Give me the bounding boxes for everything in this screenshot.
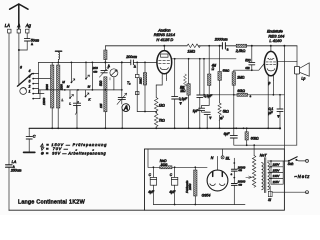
coil L1 antenna [51,65,54,108]
wire mid bus [39,89,122,91]
capacitor 50cm [24,38,30,40]
anode RC network: cap to ground [174,59,176,97]
tube V2 anode wire to speaker [277,61,297,63]
svg-text:6μF: 6μF [224,132,231,136]
tube V1 anode wire [172,58,236,60]
svg-text:H 4125 D: H 4125 D [156,37,173,42]
svg-text:cm: cm [93,69,98,73]
switch contacts column [32,73,34,75]
svg-text:2MΩ: 2MΩ [236,76,245,80]
potentiometer 5k [219,46,221,72]
wire LA down left side [8,33,10,165]
transformer tap selector ladder [270,161,272,184]
wire A down [18,33,20,50]
svg-text:4μF: 4μF [148,190,155,194]
power supply box [145,149,285,210]
svg-text:M: M [67,85,70,89]
inner heater rail [153,204,245,206]
svg-text:50kΩ: 50kΩ [223,68,231,72]
mains terminal bottom [306,191,309,194]
svg-text:NeT: NeT [260,154,268,158]
svg-text:3000: 3000 [45,84,49,90]
svg-text:C: C [33,135,36,139]
antenna [10,4,28,29]
svg-text:135: 135 [99,103,103,108]
back bias cap 6uF [233,128,235,135]
svg-text:1MΩ: 1MΩ [187,49,195,53]
terminal LA [8,29,11,33]
mains terminal top [306,159,309,162]
svg-text:A: A [17,23,21,28]
svg-text:2000: 2000 [188,183,192,191]
transformer secondary [268,163,270,190]
bottom bus [29,127,280,129]
resistor 2.5k on bus [236,44,246,47]
svg-text:Si: Si [268,198,271,202]
contact switch d below [85,90,87,97]
svg-text:4: 4 [29,69,31,73]
tube V1 cathode wires [161,78,163,85]
svg-text:G354: G354 [202,194,211,198]
trimmer on coil [101,70,107,72]
svg-text:0,1μF: 0,1μF [204,94,213,98]
svg-text:LA: LA [5,23,10,28]
svg-text:MΩ: MΩ [180,89,186,93]
grid leak 2M [144,62,146,72]
svg-text:500: 500 [99,80,103,86]
main tuning var cap [121,62,123,97]
svg-text:115V: 115V [273,180,281,184]
svg-text:A: A [123,106,128,112]
output tube V2 [264,51,277,75]
svg-text:M: M [62,80,65,84]
svg-text:⊙ = 30V — Arbeitsspannung: ⊙ = 30V — Arbeitsspannung [41,151,107,155]
mains wire bottom [272,191,305,193]
svg-text:5: 5 [29,80,31,84]
svg-text:cm: cm [245,66,250,70]
svg-text:7kΩ: 7kΩ [159,119,165,123]
svg-text:M: M [88,85,91,89]
tuning coil 500 [104,46,106,50]
filter cap C5 4uF [174,167,176,177]
filter cap C4 4uF [152,167,154,177]
reaction circle [110,69,118,77]
tube V2 top wire [270,46,272,52]
wire grid line top [39,61,131,63]
svg-text:a: a [227,48,229,52]
primary winding zigzag [252,156,255,188]
svg-text:Δ: Δ [31,42,33,46]
band switch arm [17,74,32,87]
speaker [296,46,298,67]
svg-text:0,1μF: 0,1μF [179,97,188,101]
HT vertical right [283,46,285,149]
tube V1 top wire [163,46,165,51]
bottom chassis rail [9,209,145,211]
transformer primary [262,163,264,190]
svg-text:60kΩ: 60kΩ [237,89,245,93]
cap 1uF [199,107,205,109]
dial A circle [122,104,130,112]
svg-text:500: 500 [245,58,251,62]
resistor 4M [208,46,210,74]
resistor 1M on bus [187,44,200,48]
wire join A+Ag [19,49,27,51]
svg-text:3: 3 [29,75,31,79]
filament resistor [184,74,187,86]
contact switch a [70,62,72,82]
svg-text:2MΩ: 2MΩ [139,77,143,85]
capacitor 250cm (LA earth) [6,164,12,166]
svg-text:~Netz: ~Netz [294,174,310,179]
grid leak 2M output [234,69,252,71]
svg-text:130V: 130V [273,174,281,178]
terminal Ag [26,29,29,33]
divider resistor 60k [234,94,237,96]
wire vertical switch bus [38,62,40,93]
output grid coupling cap 500cm [251,46,253,63]
ground branch with cap C [28,128,30,136]
svg-text:150V: 150V [273,168,281,172]
cathode resistor 1k [154,98,158,112]
wire Ag down [26,33,28,39]
ground [24,151,35,153]
wire mid vertical [91,62,93,90]
wire from reaction down [113,77,115,90]
svg-text:L 4160: L 4160 [269,38,282,43]
svg-text:1: 1 [29,90,31,94]
svg-text:250cm: 250cm [10,169,22,173]
svg-text:N: N [211,156,214,160]
svg-text:LA: LA [12,160,17,164]
anode resistor 0.1M [188,59,190,84]
variable capacitor C-gang1 [76,90,78,103]
wires contacts to coils [33,73,38,75]
transformer core [263,158,265,193]
rectifier tube G354 [207,170,228,191]
svg-text:EL: EL [226,156,230,160]
tube V2 screen wire [272,80,274,95]
terminal A [17,29,20,33]
cap 5000cm [199,59,201,95]
svg-text:2000cm: 2000cm [214,38,228,42]
wire A to switch arm [18,50,20,86]
grid wire to output tube [252,63,265,70]
svg-text:4μF: 4μF [169,190,176,194]
back bias resistor 60k [246,128,248,132]
svg-text:Ag: Ag [25,23,32,28]
svg-text:200cm: 200cm [125,55,137,59]
coil L2 coupling bumps [58,52,59,59]
svg-text:1300: 1300 [60,84,64,90]
coupling cap 2000cm [219,45,221,47]
svg-text:220V: 220V [272,163,281,167]
svg-text:Lange Continental 1K2W: Lange Continental 1K2W [18,199,86,205]
cathode resistor 7k [154,113,158,127]
coil L2 top bar [55,50,61,52]
contact switch b [85,62,87,78]
svg-text:13000: 13000 [42,97,46,105]
svg-text:L: L [69,101,71,105]
bias return wire to speaker [234,144,297,146]
svg-text:2: 2 [28,85,31,89]
svg-text:2,5kΩ: 2,5kΩ [235,49,246,53]
smoothing caps 20000cm [231,168,237,170]
svg-text:6: 6 [20,66,22,70]
svg-text:L: L [62,98,64,102]
grid bypass cap 0.1uF [279,95,281,109]
audion tube V1 [157,51,172,74]
fuse Si [269,186,271,191]
svg-text:5kΩ: 5kΩ [223,110,229,114]
svg-text:Lp: Lp [301,76,305,80]
svg-text:60kΩ: 60kΩ [251,136,259,140]
top bus [105,45,187,47]
small box Tr [136,62,138,74]
grid cap 200cm [130,60,132,65]
tube V2 cathode wire [267,80,269,128]
screen feed wire [203,59,205,95]
svg-text:Sch: Sch [288,162,294,166]
mains switch Sch [283,160,288,162]
switch rotor [20,88,27,95]
coil L2 winding [57,65,60,108]
svg-text:1kΩ: 1kΩ [159,103,165,107]
contact switch c below [69,90,71,98]
svg-text:1μF: 1μF [193,109,200,113]
